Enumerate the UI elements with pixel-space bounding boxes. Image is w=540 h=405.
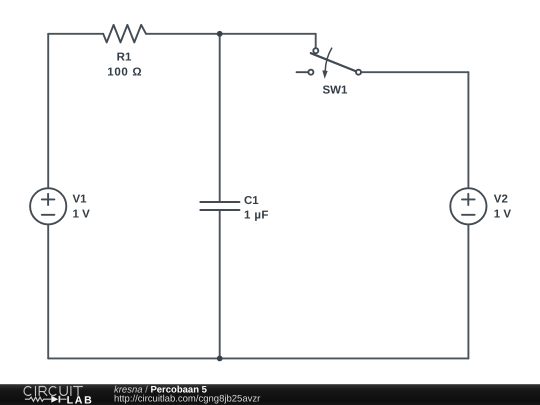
wire switch right throw to right corner (361, 71, 468, 73)
switch SW1 arrowhead (322, 70, 327, 78)
switch SW1 pole terminal circle (313, 48, 318, 53)
resistor R1 body (103, 25, 146, 43)
svg-text:LAB: LAB (67, 395, 94, 405)
node junction bottom (217, 356, 223, 362)
node junction top (217, 31, 223, 37)
wire bottom rail (48, 357, 468, 359)
switch SW1 blade (311, 53, 356, 71)
capacitor C1 (200, 202, 239, 210)
svg-text:100 Ω: 100 Ω (107, 67, 142, 79)
wire right vertical down to V2 (467, 72, 469, 188)
wire C1 branch top (219, 34, 221, 202)
voltage source V1 circle (30, 188, 66, 224)
wire V1 bottom to bottom rail (47, 224, 49, 358)
svg-text:V1: V1 (73, 194, 88, 206)
switch SW1 right throw terminal circle (356, 70, 361, 75)
svg-text:http://circuitlab.com/cgng8jb2: http://circuitlab.com/cgng8jb25avzr (114, 393, 260, 404)
wire resistor to switch corner (146, 33, 316, 35)
voltage source V2 minus sign (462, 214, 475, 216)
switch SW1 (297, 48, 362, 78)
voltage source V2 circle (450, 188, 486, 224)
voltage source V1 plus sign (42, 194, 55, 205)
svg-text:C1: C1 (244, 195, 259, 207)
svg-text:1 V: 1 V (73, 209, 91, 221)
voltage source V2 (450, 188, 486, 224)
svg-text:V2: V2 (494, 194, 508, 206)
switch SW1 left throw terminal circle (308, 70, 313, 75)
switch SW1 motion arc (325, 48, 332, 71)
wire top-left horizontal (48, 33, 103, 35)
wire left vertical down to V1 (47, 34, 49, 189)
svg-text:SW1: SW1 (322, 85, 348, 97)
svg-text:R1: R1 (117, 52, 132, 64)
svg-text:1 µF: 1 µF (244, 209, 269, 221)
footer bar (0, 384, 540, 405)
voltage source V2 plus sign (462, 194, 475, 205)
svg-text:1 V: 1 V (494, 209, 512, 221)
CircuitLab logo resistor squiggle (25, 397, 51, 401)
capacitor C1 top plate (200, 201, 239, 203)
wire V2 bottom to bottom rail (467, 224, 469, 358)
wire C1 branch bottom (219, 210, 221, 358)
wire switch vertical drop (315, 34, 317, 48)
switch SW1 left throw stub wire (297, 71, 309, 73)
capacitor C1 bottom plate (200, 209, 239, 211)
CircuitLab logo diode symbol (51, 396, 58, 403)
voltage source V1 (30, 188, 66, 224)
voltage source V1 minus sign (42, 214, 55, 216)
CircuitLab logo wordmark CIRCUIT (thin drawn letters) (24, 387, 82, 396)
